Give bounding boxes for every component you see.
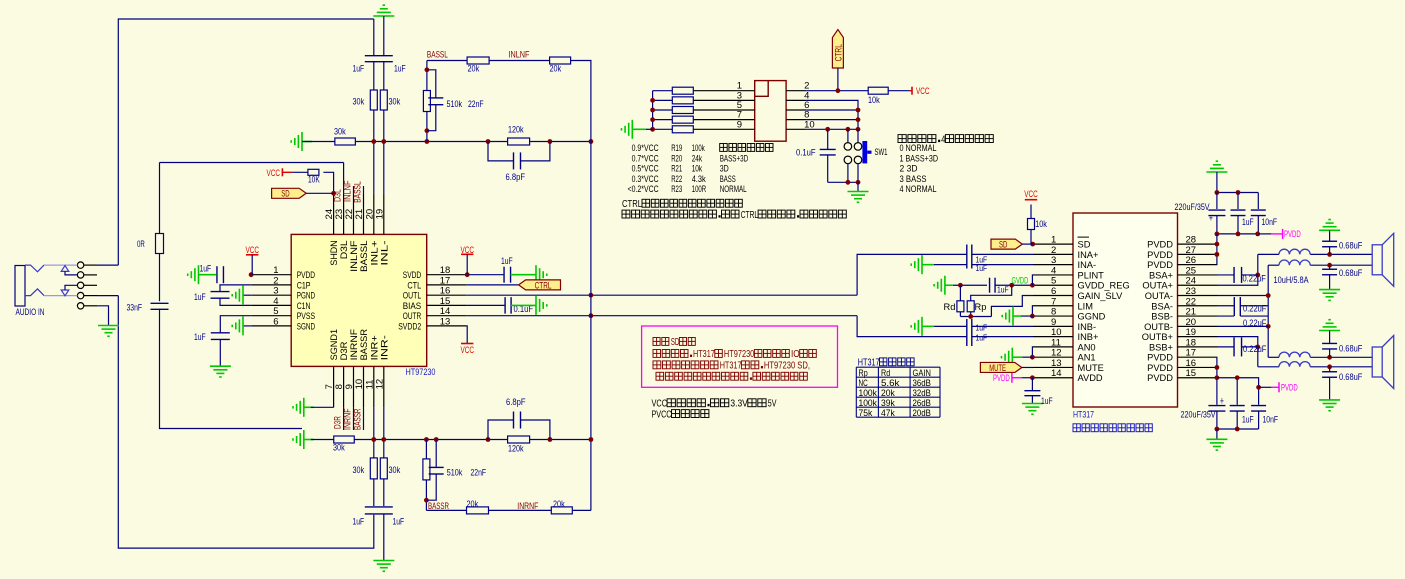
- svg-text:10k: 10k: [868, 95, 880, 106]
- svg-text:OUTB+: OUTB+: [1142, 332, 1173, 342]
- svg-text:INLNF: INLNF: [343, 180, 353, 202]
- svg-text:Rd: Rd: [881, 368, 890, 378]
- svg-text:SVDD2: SVDD2: [398, 321, 421, 332]
- svg-text:+: +: [1209, 213, 1213, 225]
- svg-text:22nF: 22nF: [468, 99, 484, 110]
- svg-text:100k: 100k: [859, 398, 878, 408]
- svg-text:GAIN_SLV: GAIN_SLV: [1078, 291, 1124, 301]
- svg-text:HT317: HT317: [720, 361, 742, 372]
- svg-text:22nF: 22nF: [471, 467, 487, 478]
- svg-text:47k: 47k: [881, 408, 895, 418]
- svg-text:1uF: 1uF: [200, 263, 212, 274]
- svg-text:SD: SD: [1078, 240, 1091, 250]
- svg-text:1uF: 1uF: [353, 517, 365, 528]
- svg-text:4.3k: 4.3k: [692, 174, 706, 184]
- svg-text:0.68uF: 0.68uF: [1339, 268, 1363, 279]
- svg-text:1uF: 1uF: [976, 263, 988, 273]
- svg-text:GVDD_REG: GVDD_REG: [1078, 281, 1130, 291]
- svg-text:20k: 20k: [881, 388, 895, 398]
- svg-text:1 BASS+3D: 1 BASS+3D: [900, 153, 939, 163]
- svg-text:BSA-: BSA-: [1151, 301, 1173, 311]
- svg-text:1uF: 1uF: [353, 64, 365, 75]
- svg-text:SD: SD: [281, 189, 289, 200]
- svg-text:GAIN: GAIN: [913, 368, 931, 378]
- svg-text:20dB: 20dB: [913, 408, 931, 418]
- svg-text:R19: R19: [671, 143, 682, 153]
- svg-text:33nF: 33nF: [127, 302, 143, 313]
- svg-text:10nF: 10nF: [1263, 415, 1279, 426]
- svg-text:0.3*VCC: 0.3*VCC: [632, 174, 659, 184]
- svg-text:10nF: 10nF: [1262, 217, 1278, 228]
- svg-text:BASS: BASS: [720, 174, 736, 184]
- svg-text:6.8pF: 6.8pF: [506, 397, 526, 408]
- svg-text:INB+: INB+: [1078, 332, 1099, 342]
- svg-text:R23: R23: [671, 184, 682, 194]
- svg-text:220uF/35V: 220uF/35V: [1181, 410, 1217, 421]
- svg-text:36dB: 36dB: [913, 378, 931, 388]
- svg-text:BASS+3D: BASS+3D: [720, 153, 749, 163]
- svg-text:INR-: INR-: [379, 335, 390, 360]
- svg-text:1uF: 1uF: [976, 323, 988, 333]
- svg-text:HT97230: HT97230: [724, 349, 755, 360]
- svg-text:OUTA-: OUTA-: [1145, 291, 1173, 301]
- svg-text:VCC: VCC: [267, 168, 281, 178]
- svg-text:3D: 3D: [720, 164, 729, 174]
- svg-text:20k: 20k: [553, 499, 565, 510]
- svg-text:510k: 510k: [447, 99, 463, 110]
- svg-text:100k: 100k: [692, 143, 705, 153]
- svg-text:26dB: 26dB: [913, 398, 931, 408]
- svg-text:0.68uF: 0.68uF: [1339, 240, 1363, 251]
- svg-text:0.7*VCC: 0.7*VCC: [632, 153, 659, 163]
- svg-text:CTRL: CTRL: [833, 44, 844, 61]
- svg-text:BSB+: BSB+: [1149, 342, 1173, 352]
- svg-text:SD: SD: [999, 240, 1007, 251]
- svg-text:MUTE: MUTE: [1078, 363, 1104, 373]
- svg-text:INB-: INB-: [1078, 322, 1097, 332]
- svg-text:10: 10: [804, 119, 815, 130]
- svg-text:510k: 510k: [447, 467, 463, 478]
- svg-text:<0.2*VCC: <0.2*VCC: [628, 184, 659, 194]
- svg-text:10k: 10k: [1035, 219, 1047, 230]
- svg-text:INRNF: INRNF: [517, 501, 538, 511]
- svg-text:GVDD: GVDD: [1012, 275, 1029, 285]
- svg-text:VCC: VCC: [460, 345, 474, 355]
- svg-text:VCC: VCC: [652, 399, 668, 410]
- svg-text:BASSR: BASSR: [353, 408, 363, 430]
- svg-text:20k: 20k: [467, 499, 479, 510]
- svg-text:HT317: HT317: [1073, 410, 1094, 421]
- svg-text:9: 9: [737, 119, 742, 130]
- svg-text:6.8pF: 6.8pF: [506, 172, 526, 183]
- svg-text:120k: 120k: [508, 125, 524, 136]
- svg-text:10uH/5.8A: 10uH/5.8A: [1274, 275, 1310, 286]
- svg-text:BSA+: BSA+: [1149, 270, 1173, 280]
- svg-text:PLINT: PLINT: [1078, 270, 1105, 280]
- svg-text:NORMAL: NORMAL: [720, 184, 747, 194]
- svg-text:PVDD: PVDD: [1147, 353, 1173, 363]
- svg-text:1uF: 1uF: [393, 517, 405, 528]
- svg-text:R22: R22: [671, 174, 682, 184]
- svg-text:NC: NC: [859, 378, 868, 388]
- svg-text:1uF: 1uF: [194, 292, 206, 303]
- svg-text:4 NORMAL: 4 NORMAL: [900, 184, 937, 194]
- svg-text:OUTB-: OUTB-: [1144, 322, 1173, 332]
- svg-text:INLNF: INLNF: [509, 49, 530, 59]
- svg-text:3.3V: 3.3V: [730, 399, 748, 410]
- svg-text:100R: 100R: [692, 184, 707, 194]
- svg-text:OUTA+: OUTA+: [1142, 281, 1173, 291]
- svg-text:AN1: AN1: [1078, 353, 1096, 363]
- svg-text:PVDD: PVDD: [1281, 383, 1298, 393]
- svg-text:PVDD: PVDD: [1147, 373, 1173, 383]
- svg-text:1uF: 1uF: [1041, 396, 1053, 407]
- svg-text:0 NORMAL: 0 NORMAL: [900, 143, 937, 153]
- svg-text:VCC: VCC: [916, 86, 930, 96]
- svg-text:0.68uF: 0.68uF: [1339, 372, 1363, 383]
- svg-text:AN0: AN0: [1078, 342, 1096, 352]
- svg-text:AVDD: AVDD: [1078, 373, 1103, 383]
- svg-text:1uF: 1uF: [1242, 217, 1254, 228]
- svg-text:220uF/35V: 220uF/35V: [1175, 202, 1211, 213]
- svg-text:PVDD: PVDD: [1147, 260, 1173, 270]
- svg-text:30k: 30k: [353, 465, 365, 476]
- svg-text:0.22uF: 0.22uF: [1243, 304, 1267, 314]
- svg-text:SD: SD: [671, 337, 680, 348]
- svg-text:Rp: Rp: [975, 302, 987, 312]
- svg-text:0.5*VCC: 0.5*VCC: [632, 164, 659, 174]
- svg-text:D3L: D3L: [333, 189, 343, 202]
- svg-text:INL-: INL-: [379, 240, 390, 265]
- svg-text:HT97230: HT97230: [406, 367, 436, 378]
- svg-text:BASSL: BASSL: [427, 50, 448, 60]
- svg-text:1uF: 1uF: [997, 285, 1009, 295]
- svg-text:Rd: Rd: [944, 302, 956, 312]
- svg-text:10K: 10K: [308, 174, 320, 185]
- svg-text:BASSR: BASSR: [428, 501, 449, 511]
- svg-text:PVDD: PVDD: [1284, 229, 1301, 239]
- svg-text:INA-: INA-: [1078, 260, 1097, 270]
- svg-text:0.1uF: 0.1uF: [796, 148, 816, 159]
- svg-text:PVDD: PVDD: [993, 373, 1010, 383]
- svg-text:30k: 30k: [389, 97, 401, 108]
- svg-text:120k: 120k: [508, 444, 524, 455]
- svg-text:+: +: [1220, 396, 1224, 408]
- svg-text:Rp: Rp: [859, 368, 868, 378]
- svg-text:20k: 20k: [550, 64, 562, 75]
- svg-text:PVDD: PVDD: [1147, 250, 1173, 260]
- svg-text:VCC: VCC: [1024, 189, 1038, 199]
- svg-text:1uF: 1uF: [501, 256, 513, 267]
- svg-text:CTRL: CTRL: [622, 199, 642, 210]
- svg-text:HT317: HT317: [693, 349, 715, 360]
- svg-text:PVDD: PVDD: [1147, 240, 1173, 250]
- svg-text:VCC: VCC: [460, 245, 474, 255]
- svg-text:30k: 30k: [334, 127, 346, 138]
- svg-text:0R: 0R: [137, 239, 145, 250]
- svg-text:0.22uF: 0.22uF: [1243, 344, 1267, 354]
- svg-text:LIM: LIM: [1078, 301, 1094, 311]
- svg-text:IO: IO: [791, 349, 800, 360]
- svg-text:5V: 5V: [768, 399, 777, 410]
- svg-text:BASSL: BASSL: [353, 181, 363, 203]
- svg-text:0.68uF: 0.68uF: [1339, 343, 1363, 354]
- svg-text:10k: 10k: [692, 164, 703, 174]
- svg-text:D3R: D3R: [333, 416, 343, 429]
- svg-text:3 BASS: 3 BASS: [900, 174, 927, 184]
- svg-text:R20: R20: [671, 153, 682, 163]
- svg-text:1uF: 1uF: [194, 332, 206, 343]
- svg-text:5.6k: 5.6k: [881, 378, 900, 388]
- svg-text:30k: 30k: [389, 465, 401, 476]
- svg-text:0.9*VCC: 0.9*VCC: [632, 143, 659, 153]
- svg-text:1uF: 1uF: [394, 64, 406, 75]
- svg-text:CTRL: CTRL: [535, 280, 552, 291]
- svg-text:GGND: GGND: [1078, 312, 1106, 322]
- svg-text:100k: 100k: [859, 388, 878, 398]
- svg-text:HT97230 SD,: HT97230 SD,: [764, 361, 810, 372]
- svg-text:39k: 39k: [881, 398, 895, 408]
- svg-text:INRNF: INRNF: [343, 408, 353, 430]
- svg-text:20k: 20k: [468, 64, 480, 75]
- svg-text:1uF: 1uF: [1242, 415, 1254, 426]
- svg-text:1uF: 1uF: [976, 333, 988, 343]
- svg-text:R21: R21: [671, 164, 682, 174]
- svg-text:0.22uF: 0.22uF: [1243, 274, 1267, 284]
- svg-text:AUDIO IN: AUDIO IN: [16, 307, 45, 317]
- svg-text:SW1: SW1: [875, 147, 888, 158]
- svg-text:SGND: SGND: [297, 321, 315, 332]
- svg-text:INA+: INA+: [1078, 250, 1099, 260]
- svg-text:30k: 30k: [353, 97, 365, 108]
- svg-text:VCC: VCC: [245, 245, 259, 255]
- svg-text:PVDD: PVDD: [1147, 363, 1173, 373]
- svg-text:BSB-: BSB-: [1151, 312, 1173, 322]
- svg-text:75k: 75k: [859, 408, 873, 418]
- svg-text:32dB: 32dB: [913, 388, 931, 398]
- svg-text:PVCC: PVCC: [652, 409, 672, 420]
- svg-text:2 3D: 2 3D: [900, 164, 918, 174]
- svg-text:30k: 30k: [333, 443, 345, 454]
- svg-text:24k: 24k: [692, 153, 703, 163]
- svg-text:CTRL: CTRL: [741, 210, 759, 221]
